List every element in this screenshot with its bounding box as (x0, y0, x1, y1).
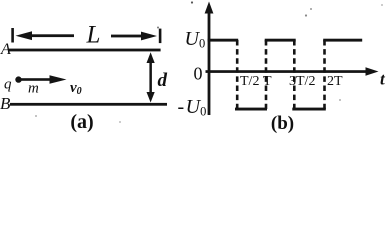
dimension L left arrow (16, 31, 75, 40)
dashed vertical at 3T/2 (293, 40, 296, 109)
particle dot (15, 76, 21, 82)
square wave top segment T..3T/2 (265, 39, 296, 42)
svg-text:0: 0 (194, 64, 203, 84)
svg-text:t: t (380, 70, 386, 89)
dimension L right tick (159, 29, 162, 43)
dashed vertical at T (265, 40, 268, 109)
svg-text:(a): (a) (70, 111, 93, 133)
svg-text:(b): (b) (271, 113, 294, 134)
svg-text:q: q (4, 77, 12, 93)
svg-text:T: T (263, 74, 272, 89)
svg-text:3T/2: 3T/2 (289, 74, 315, 89)
svg-text:U0: U0 (185, 28, 206, 51)
square wave top segment 0..T/2 (208, 39, 239, 42)
velocity arrow (20, 75, 67, 83)
square wave top segment 2T.. (323, 39, 362, 42)
dimension d double arrow (147, 52, 155, 102)
y-axis (205, 2, 214, 116)
svg-text:d: d (158, 70, 168, 91)
svg-text:-U0: -U0 (178, 96, 207, 119)
dimension L left tick (11, 28, 14, 43)
scan specks (35, 1, 383, 123)
dimension L right arrow (111, 32, 157, 41)
svg-text:B: B (0, 94, 11, 113)
svg-text:L: L (86, 22, 101, 49)
dashed vertical at 2T (323, 40, 326, 109)
x-axis (206, 67, 379, 75)
svg-text:v0: v0 (70, 80, 82, 97)
square wave bottom segment 3T/2..2T (292, 108, 326, 111)
dashed vertical at T/2 (236, 40, 239, 109)
svg-text:m: m (28, 81, 39, 97)
svg-text:2T: 2T (327, 74, 343, 89)
svg-text:T/2: T/2 (240, 74, 259, 89)
plate B (10, 103, 167, 106)
plate A (9, 49, 161, 52)
svg-text:A: A (0, 41, 11, 58)
square wave bottom segment T/2..T (235, 108, 267, 111)
